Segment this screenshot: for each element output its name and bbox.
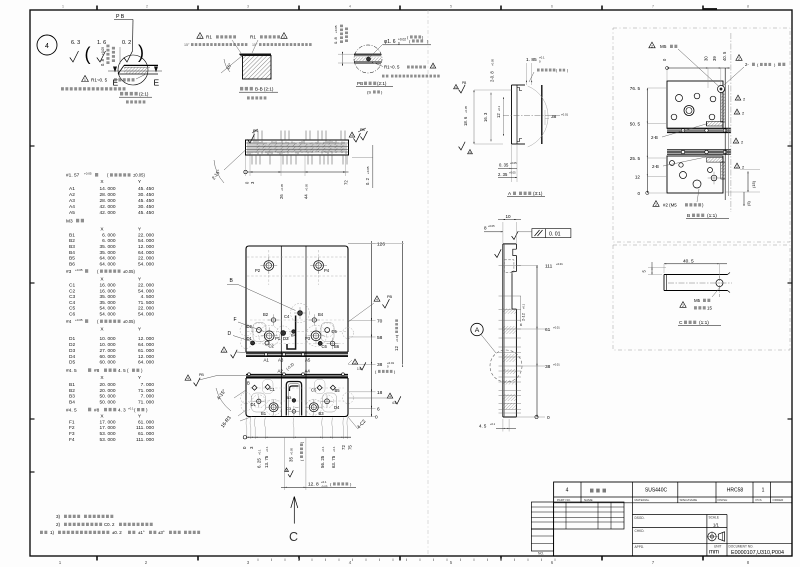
svg-text:F2: F2 <box>69 425 75 431</box>
svg-text:126: 126 <box>377 242 385 248</box>
detail A3 label <box>507 191 545 197</box>
hole D1 small <box>247 336 255 345</box>
svg-text:7. 000: 7. 000 <box>141 382 155 388</box>
svg-text:1/1: 1/1 <box>713 523 719 528</box>
svg-text:0. 8: 0. 8 <box>333 37 338 44</box>
svg-text:71. 000: 71. 000 <box>138 388 154 394</box>
svg-text:P3: P3 <box>305 336 311 341</box>
svg-text:1): 1) <box>50 530 55 535</box>
svg-text:64. 000: 64. 000 <box>99 261 115 267</box>
svg-text:B5: B5 <box>69 256 75 262</box>
top view 0.2 gap dimension <box>352 145 373 188</box>
svg-text:25. 5: 25. 5 <box>630 156 641 161</box>
svg-text:50. 000: 50. 000 <box>99 394 115 400</box>
front view lower pocket outline <box>286 382 301 416</box>
svg-text:#4. 5: #4. 5 <box>66 407 77 413</box>
svg-text:C6: C6 <box>69 312 75 318</box>
detail B right small dims <box>725 170 760 206</box>
svg-text:+0.1: +0.1 <box>265 446 269 452</box>
top view 2-15deg callout <box>211 150 246 183</box>
detail A3 dim 12 <box>496 97 504 136</box>
detail A3 bar outline <box>512 85 549 147</box>
detail B rail bands <box>667 128 731 154</box>
svg-text:27. 000: 27. 000 <box>99 348 115 354</box>
callout 4-C2 right bottom <box>348 417 368 430</box>
svg-text:+0.1: +0.1 <box>497 105 501 111</box>
svg-text:12. 000: 12. 000 <box>138 336 154 342</box>
svg-text:1. 6: 1. 6 <box>97 40 106 46</box>
title block top rows <box>554 482 792 503</box>
svg-text:+0.05: +0.05 <box>289 447 293 455</box>
note R1 left above B-B <box>184 33 247 53</box>
svg-text:61: 61 <box>545 327 551 333</box>
svg-text:ORDER: ORDER <box>773 498 785 502</box>
svg-text:35. 000: 35. 000 <box>99 244 115 250</box>
svg-text:+0.1: +0.1 <box>332 446 336 452</box>
svg-text:C2: C2 <box>269 344 275 349</box>
detail D left dimension 0.8 <box>100 45 120 66</box>
svg-text:B3: B3 <box>69 394 75 400</box>
svg-text:6: 6 <box>520 323 522 327</box>
svg-text:54. 000: 54. 000 <box>138 238 154 244</box>
svg-text:1.6: 1.6 <box>357 367 362 371</box>
svg-text:22. 000: 22. 000 <box>138 283 154 289</box>
svg-text:M5: M5 <box>660 44 667 49</box>
svg-text:+0.05: +0.05 <box>464 105 468 113</box>
top view rail outline <box>246 140 349 155</box>
svg-text:A4: A4 <box>69 204 75 210</box>
svg-text:44: 44 <box>304 194 309 199</box>
svg-text:6. 25: 6. 25 <box>256 458 261 468</box>
pocket holes center <box>286 395 299 417</box>
svg-text:B: B <box>247 381 250 386</box>
svg-text:B2: B2 <box>69 238 75 244</box>
side view dim 2-12 rotated <box>520 296 526 327</box>
front view second dim line 12 <box>348 241 404 366</box>
svg-text:39: 39 <box>712 56 717 61</box>
svg-text:#4. 5: #4. 5 <box>66 368 77 374</box>
svg-text:2-0. 8: 2-0. 8 <box>490 71 495 82</box>
front view groove vertical lines <box>281 246 306 417</box>
notes line 2 <box>56 522 153 527</box>
part balloon circle 4 <box>37 35 57 55</box>
leader F <box>234 317 265 332</box>
svg-text:0. 01: 0. 01 <box>549 232 561 238</box>
note finish smooth line2 <box>61 87 126 90</box>
svg-text:0: 0 <box>375 415 378 421</box>
svg-text:PB: PB <box>253 129 258 133</box>
svg-text:12: 12 <box>635 175 641 180</box>
svg-text:+0.1: +0.1 <box>490 422 496 426</box>
svg-text:50. 000: 50. 000 <box>99 399 115 405</box>
svg-text:C0. 2: C0. 2 <box>104 522 115 527</box>
svg-text:22. 000: 22. 000 <box>138 306 154 312</box>
svg-text:(1:1): (1:1) <box>707 213 717 219</box>
side view tick lines <box>499 266 522 414</box>
svg-text:+0.1: +0.1 <box>257 449 261 455</box>
svg-text:F3: F3 <box>69 431 75 437</box>
svg-text:F: F <box>234 317 237 323</box>
svg-text:53. 000: 53. 000 <box>99 431 115 437</box>
svg-text:70: 70 <box>377 319 383 325</box>
svg-text:17. 000: 17. 000 <box>99 425 115 431</box>
svg-text:2: 2 <box>738 57 740 61</box>
detail A3 dim 1.85 <box>526 56 545 86</box>
detail A3 dim 2-0.8 rotated <box>490 58 495 82</box>
svg-text:C3: C3 <box>69 294 75 300</box>
title block header labels <box>557 498 784 502</box>
svg-text:18: 18 <box>377 390 383 396</box>
svg-text:D2: D2 <box>247 324 253 329</box>
detail C centerline <box>668 282 732 284</box>
svg-text:C5: C5 <box>69 306 75 312</box>
svg-text:3): 3) <box>56 514 61 519</box>
svg-text:12: 12 <box>394 346 399 351</box>
svg-text:+0.05: +0.05 <box>305 183 309 191</box>
svg-text:4. 5: 4. 5 <box>479 424 487 429</box>
svg-text:54. 000: 54. 000 <box>138 312 154 318</box>
hole D3 <box>281 331 289 341</box>
detail A3 leader sumi-nige <box>529 69 568 83</box>
svg-text:6. 000: 6. 000 <box>102 232 116 238</box>
dimension 12.8 square hole <box>281 437 356 490</box>
svg-text:E0000107,U310,P004: E0000107,U310,P004 <box>731 550 784 556</box>
detail A3 dim 38 <box>545 110 569 125</box>
note R1-0.5 mid <box>382 63 436 77</box>
svg-text:4: 4 <box>566 488 569 494</box>
note R1-0.5 leader <box>82 75 145 83</box>
svg-text:0. 2: 0. 2 <box>365 177 370 185</box>
hole B4 upper <box>309 312 324 326</box>
detail D section bar <box>118 65 158 74</box>
svg-text:R1~0. 5: R1~0. 5 <box>91 78 108 83</box>
hole P2 with counterbore <box>255 257 277 274</box>
fold separator dash-dot line <box>427 10 429 556</box>
hole C2 <box>265 341 275 349</box>
frame zone ticks bottom <box>97 556 703 561</box>
hole P3 <box>305 327 324 344</box>
svg-text:A2: A2 <box>278 369 284 374</box>
svg-text:40. 5: 40. 5 <box>722 51 727 61</box>
detail PB section bars <box>354 54 381 63</box>
svg-text:+0.05: +0.05 <box>510 161 517 165</box>
svg-text:B1: B1 <box>261 411 267 416</box>
svg-text:(: ( <box>85 44 91 64</box>
front view right dimension labels <box>375 242 396 421</box>
svg-text:1: 1 <box>283 35 285 39</box>
lower block diamond holes <box>247 381 340 394</box>
parallelism tolerance box <box>518 229 571 238</box>
svg-text:+0.01: +0.01 <box>561 113 569 117</box>
svg-text:B3: B3 <box>69 244 75 250</box>
svg-text:F4: F4 <box>69 437 75 443</box>
svg-text:4.5: 4.5 <box>392 401 397 405</box>
svg-text:60. 000: 60. 000 <box>99 354 115 360</box>
svg-text:C5: C5 <box>311 388 317 393</box>
svg-text:F1: F1 <box>69 419 75 425</box>
svg-text:+0.1: +0.1 <box>321 446 325 452</box>
svg-text:+0.05: +0.05 <box>101 47 105 55</box>
svg-text:(S: (S <box>367 90 371 95</box>
svg-text:2: 2 <box>651 44 653 48</box>
side view right dimension line 111 <box>516 262 563 421</box>
counterbore capsule outlines <box>252 323 337 413</box>
svg-text:38: 38 <box>377 362 383 368</box>
svg-text:A1: A1 <box>264 358 270 363</box>
side view dim 8 <box>484 224 503 232</box>
frame zone numbers top <box>62 4 750 9</box>
svg-text:38: 38 <box>551 114 557 120</box>
svg-text:0. 2: 0. 2 <box>122 40 131 46</box>
front view rail band upper <box>246 352 348 356</box>
svg-text:C6: C6 <box>322 344 328 349</box>
svg-text:#1. 57: #1. 57 <box>66 173 80 179</box>
svg-text:P2: P2 <box>255 268 261 273</box>
svg-text:±0. 2: ±0. 2 <box>112 530 122 535</box>
svg-text:61. 000: 61. 000 <box>138 431 154 437</box>
detail B lower block <box>667 156 725 193</box>
hole D5 <box>325 328 338 334</box>
leader B <box>227 278 296 311</box>
svg-text:B: B <box>687 213 690 219</box>
A-row labels middle strip <box>248 353 345 376</box>
detail B label <box>686 213 729 219</box>
svg-text:35. 000: 35. 000 <box>99 300 115 306</box>
detail A3 dim 18.6 <box>463 90 512 144</box>
svg-text:6: 6 <box>377 406 380 412</box>
notes line 1 <box>40 530 200 535</box>
side view hidden slot dashed <box>504 260 514 273</box>
detail C leader M5 countersink <box>680 286 721 311</box>
svg-text:A1: A1 <box>69 186 75 192</box>
callout 4-15deg <box>216 388 246 411</box>
third angle projection symbol <box>706 531 724 542</box>
svg-text:+0.05: +0.05 <box>334 25 338 33</box>
svg-text:+0.01: +0.01 <box>556 262 563 266</box>
svg-text:DSGD.: DSGD. <box>635 516 645 520</box>
title block signature rows <box>632 515 792 550</box>
detail A3 finish flags <box>454 81 473 154</box>
front view right extension lines <box>348 244 376 417</box>
hole C4 <box>284 307 306 319</box>
svg-text:SUS440C: SUS440C <box>645 488 668 494</box>
svg-text:+0.05: +0.05 <box>280 183 284 191</box>
svg-text:45. 450: 45. 450 <box>138 186 154 192</box>
svg-text:75: 75 <box>348 445 353 450</box>
svg-text:30: 30 <box>704 56 709 61</box>
svg-text:15: 15 <box>707 306 712 311</box>
svg-text:A2: A2 <box>69 192 75 198</box>
note nozomi line2 <box>391 75 394 78</box>
svg-text:28. 000: 28. 000 <box>99 198 115 204</box>
hole B2 <box>263 312 279 326</box>
frame zone ticks top <box>97 6 717 11</box>
svg-text:22. 000: 22. 000 <box>138 232 154 238</box>
svg-text:54. 000: 54. 000 <box>138 261 154 267</box>
svg-text:C: C <box>289 530 298 544</box>
svg-text:35: 35 <box>288 457 293 462</box>
title block outer box <box>554 482 792 556</box>
section arrow E right <box>154 67 160 88</box>
detail PB note leader <box>372 62 383 67</box>
svg-text:±0.05): ±0.05) <box>123 319 135 324</box>
svg-text:+0.01: +0.01 <box>553 363 560 367</box>
svg-text:13. 75: 13. 75 <box>264 455 269 468</box>
svg-text:56. 25: 56. 25 <box>320 455 325 468</box>
svg-text:54. 000: 54. 000 <box>138 288 154 294</box>
svg-text:+0.05: +0.05 <box>488 224 495 228</box>
svg-text:PB: PB <box>199 373 204 377</box>
svg-text:42. 000: 42. 000 <box>99 204 115 210</box>
callout 16-R3 <box>220 410 252 429</box>
svg-text:): ) <box>567 69 568 73</box>
title block document number <box>729 545 785 556</box>
svg-text:1: 1 <box>762 488 765 494</box>
svg-text:A3: A3 <box>278 358 284 363</box>
svg-text:C2: C2 <box>69 288 75 294</box>
svg-text:10. 000: 10. 000 <box>99 342 115 348</box>
section E-E cutting line <box>108 70 162 72</box>
hole lower small cross right <box>321 395 333 407</box>
svg-text:4. 500: 4. 500 <box>141 294 155 300</box>
svg-text:B2: B2 <box>69 388 75 394</box>
svg-text:72: 72 <box>341 445 346 450</box>
svg-text:NAME: NAME <box>584 498 593 502</box>
svg-text:2: 2 <box>682 304 684 308</box>
detail C label <box>678 320 721 326</box>
svg-text:6. 3: 6. 3 <box>71 40 80 46</box>
svg-text:#3: #3 <box>66 269 72 275</box>
svg-text:C4: C4 <box>69 300 75 306</box>
svg-text:±0.05): ±0.05) <box>133 173 145 178</box>
svg-text:C4: C4 <box>284 314 290 319</box>
svg-text:1: 1 <box>199 35 201 39</box>
detail A dashed circle on side view <box>490 350 522 382</box>
svg-text:R1: R1 <box>250 35 256 40</box>
svg-text:±3°: ±3° <box>158 530 165 535</box>
front view dashed construction lines <box>247 250 347 401</box>
detail B upper block holes <box>671 86 724 120</box>
svg-text:(5): (5) <box>746 200 751 206</box>
svg-text:(2:1): (2:1) <box>377 81 387 86</box>
top view bottom dimension line <box>244 156 349 177</box>
hole lower big right <box>306 399 324 416</box>
svg-text:+0.05: +0.05 <box>75 318 83 322</box>
svg-text:D3: D3 <box>69 348 75 354</box>
svg-text:PB: PB <box>387 295 393 299</box>
side view top finish checks <box>495 231 519 257</box>
front view bottom rotated labels <box>242 441 352 477</box>
svg-text:mm: mm <box>709 549 719 555</box>
section B-B hatched block <box>240 54 272 79</box>
svg-text:3: 3 <box>250 181 255 184</box>
svg-text:SPEC/NAME: SPEC/NAME <box>680 498 698 502</box>
svg-text:0. 35: 0. 35 <box>499 163 509 168</box>
svg-text:D: D <box>228 331 232 337</box>
svg-text:D2: D2 <box>69 342 75 348</box>
detail B leader M5 through <box>649 42 719 86</box>
svg-text:45. 450: 45. 450 <box>138 210 154 216</box>
svg-text:0: 0 <box>547 415 550 421</box>
svg-text:C: C <box>679 320 683 326</box>
svg-text:64. 000: 64. 000 <box>138 342 154 348</box>
svg-text:DOCUMENT NO.: DOCUMENT NO. <box>729 545 754 549</box>
detail B note 2-groove <box>724 55 785 85</box>
svg-text:64. 000: 64. 000 <box>138 360 154 366</box>
svg-text:60. 000: 60. 000 <box>99 360 115 366</box>
svg-text:A: A <box>475 327 480 334</box>
front view lower block outline <box>246 378 348 417</box>
svg-text:P4: P4 <box>324 268 330 273</box>
svg-text:61. 000: 61. 000 <box>138 419 154 425</box>
svg-text:4. 3: 4. 3 <box>118 407 126 412</box>
view arrow C <box>289 497 298 545</box>
side view outline <box>503 244 517 417</box>
svg-text:+0.01: +0.01 <box>553 326 560 330</box>
note R1 right above B-B <box>250 33 312 53</box>
svg-text:#8: #8 <box>94 407 100 413</box>
revision grid upper <box>531 502 624 529</box>
svg-text:(3:1): (3:1) <box>533 191 543 196</box>
svg-text:20. 000: 20. 000 <box>99 388 115 394</box>
section B-B 15deg callout <box>221 56 243 74</box>
svg-text:+0.05: +0.05 <box>491 58 495 66</box>
detail D balloon circle <box>118 55 148 85</box>
svg-text:D5: D5 <box>332 329 338 334</box>
detail A3 centerline <box>503 115 560 117</box>
detail B lower block holes <box>670 161 721 189</box>
detail PB left dimension 0.8 <box>333 25 354 66</box>
section arrow E left <box>113 67 119 88</box>
frame edge ticks left-right <box>30 146 792 472</box>
svg-text:12. 8: 12. 8 <box>308 482 319 488</box>
svg-text:50. 5: 50. 5 <box>630 122 641 127</box>
svg-text:7. 000: 7. 000 <box>141 394 155 400</box>
detail PB balloon dash-dot circle <box>354 45 382 73</box>
svg-text:PB: PB <box>462 81 466 85</box>
svg-text:38: 38 <box>545 364 551 370</box>
svg-text:4. 5 (: 4. 5 ( <box>118 368 129 373</box>
svg-text:P B: P B <box>116 14 125 20</box>
balloon A circle <box>471 323 496 353</box>
svg-text:B2: B2 <box>263 312 269 317</box>
svg-text:71. 500: 71. 500 <box>138 300 154 306</box>
top view left finish flag <box>247 129 258 143</box>
detail B right wall lines <box>725 33 731 212</box>
svg-text:NO.: NO. <box>538 552 544 556</box>
svg-text:17. 000: 17. 000 <box>99 419 115 425</box>
svg-text:HRC58: HRC58 <box>727 488 744 494</box>
detail B triangle2 marks right <box>733 95 746 169</box>
notes line 3 <box>56 514 113 519</box>
hole C6 <box>318 341 327 349</box>
svg-text:CHKD.: CHKD. <box>635 529 645 533</box>
svg-text:B1: B1 <box>69 232 75 238</box>
svg-text:30. 450: 30. 450 <box>138 204 154 210</box>
svg-text:0. 8: 0. 8 <box>100 58 105 66</box>
svg-text:16. 3: 16. 3 <box>483 112 488 122</box>
svg-text:2: 2 <box>655 203 657 207</box>
right finish flag 4 PB <box>348 295 393 322</box>
svg-text:22. 000: 22. 000 <box>138 256 154 262</box>
svg-text:D1: D1 <box>251 402 257 407</box>
svg-text:M3: M3 <box>66 218 73 224</box>
svg-text:64. 000: 64. 000 <box>138 250 154 256</box>
svg-text:B4: B4 <box>291 333 297 338</box>
svg-text:1: 1 <box>84 78 86 82</box>
svg-text:#8: #8 <box>94 368 100 374</box>
detail C dim 5 <box>642 262 667 275</box>
